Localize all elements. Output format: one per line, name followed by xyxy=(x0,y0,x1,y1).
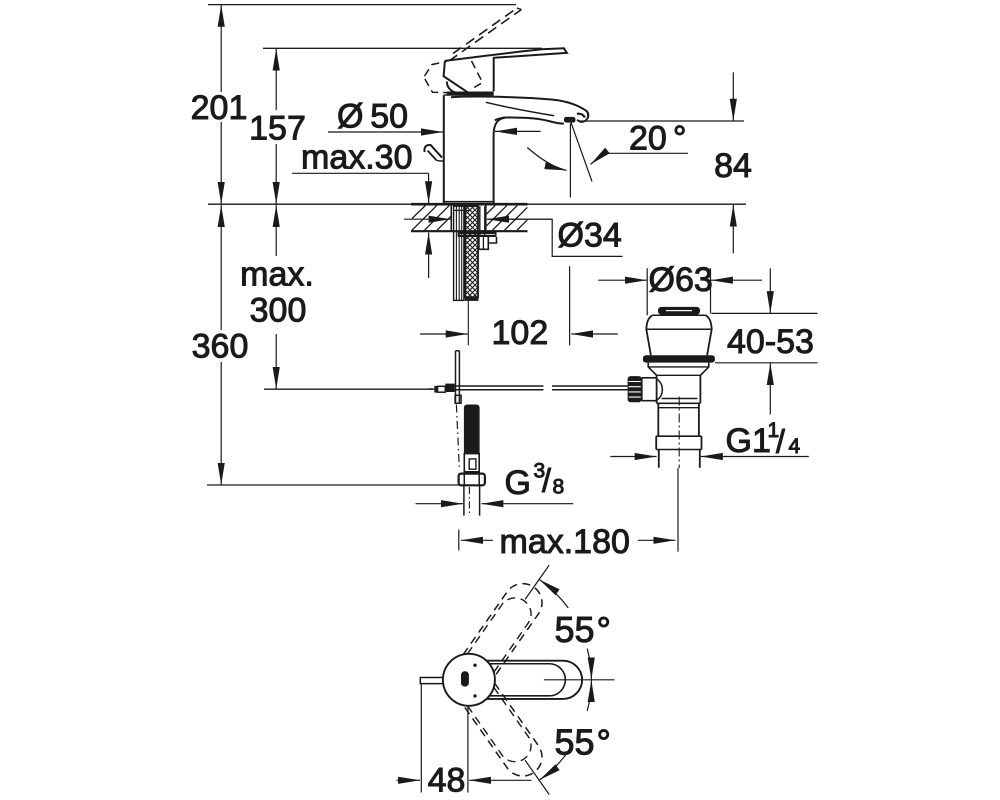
pop-up waste: valve body xyxy=(657,375,701,403)
55 degree arc upper with arrows xyxy=(540,580,569,608)
svg-text:max.: max. xyxy=(240,256,314,294)
pop-up waste: upper flange xyxy=(646,315,652,355)
top view: pop-up rod stub xyxy=(420,678,443,684)
dimension 40-53 stem and arrows xyxy=(769,268,771,313)
55 degree arc lower with arrows xyxy=(540,752,569,780)
svg-text:8: 8 xyxy=(553,476,565,499)
svg-text:48: 48 xyxy=(428,762,466,800)
top view: dashed lever rotated up 55 xyxy=(463,576,549,676)
top view: indicator dots xyxy=(473,664,476,667)
dimension 102 right extension line xyxy=(569,266,571,345)
top view: horizontal axis line xyxy=(544,679,615,681)
dimension 84 stem and arrows xyxy=(732,72,734,120)
faucet body right edge xyxy=(494,118,506,204)
55 degree extension line upper xyxy=(525,565,549,599)
knurled adjuster knob xyxy=(628,376,642,402)
pop-up rod bottom end xyxy=(455,395,461,403)
dimension 40-53 extension lines xyxy=(712,313,818,362)
countertop hatching right xyxy=(487,205,528,230)
dimension 102 arrows xyxy=(420,333,468,335)
second connection tube xyxy=(480,206,485,236)
braided supply hose upper (cross-hatched) xyxy=(465,206,478,297)
reference line lever height 157 xyxy=(263,47,542,49)
svg-text:4: 4 xyxy=(789,435,801,458)
svg-text:201: 201 xyxy=(191,89,248,127)
faucet centerline extension xyxy=(467,301,469,345)
handle neck arc xyxy=(447,82,459,93)
dimension 48 arrows xyxy=(397,779,421,781)
supply hose lower (black) xyxy=(464,405,480,454)
top view: lever inner outline xyxy=(489,664,565,696)
top view: dashed lever rotated down 55 xyxy=(463,683,549,783)
spout underside xyxy=(495,117,564,123)
spout tip lip xyxy=(577,114,585,118)
svg-text:20°: 20° xyxy=(629,120,686,158)
pop-up waste: below gasket xyxy=(648,363,709,376)
countertop top surface line xyxy=(208,203,746,205)
G3/8 connection pipe xyxy=(464,485,480,515)
svg-text:102: 102 xyxy=(492,314,549,352)
svg-text:max.180: max.180 xyxy=(500,523,630,561)
countertop bottom line xyxy=(411,230,528,232)
svg-text:84: 84 xyxy=(714,147,752,185)
svg-text:Ø 50: Ø 50 xyxy=(337,98,408,136)
pop-up rod axis dash-dot centerline xyxy=(456,405,459,471)
spout top edge xyxy=(451,97,588,118)
svg-text:360: 360 xyxy=(192,328,249,366)
spout crease line xyxy=(486,102,554,115)
pop-up pull knob on body xyxy=(424,145,442,158)
dimension Ø50 left arrow xyxy=(328,131,443,133)
55 degree extension line lower xyxy=(525,760,549,794)
pop-up waste: outlet pipe G1 1/4 xyxy=(659,450,700,468)
threaded mounting stud xyxy=(454,206,464,300)
dimension Ø63 extension lines xyxy=(647,268,710,315)
aerator xyxy=(564,117,576,123)
faucet cartridge joint band xyxy=(447,92,494,96)
top view: indicator blob xyxy=(461,671,469,686)
svg-text:G1: G1 xyxy=(726,422,771,460)
dimension max.30 arrows xyxy=(428,173,430,203)
dashed handle body (raised position) xyxy=(425,61,483,93)
20 degree sweep arc arrow xyxy=(527,148,566,171)
dimension max.30 leader line xyxy=(292,172,429,174)
svg-text:/: / xyxy=(776,424,785,460)
faucet body left edge xyxy=(443,95,445,203)
dimension Ø50 right arrow xyxy=(495,130,541,132)
knob connector housing xyxy=(642,378,657,401)
pop-up horizontal rod xyxy=(446,386,544,390)
svg-text:40-53: 40-53 xyxy=(727,323,814,361)
dimension Ø63 arrows xyxy=(598,279,647,281)
spout tip front face xyxy=(577,111,588,122)
20 degree slant line xyxy=(571,123,592,182)
rod left end cap xyxy=(438,386,446,392)
dimension 157 stem and arrows xyxy=(275,49,277,111)
reference line pop-up rod level (max.300) xyxy=(264,388,434,390)
svg-text:300: 300 xyxy=(250,292,307,330)
svg-text:Ø63: Ø63 xyxy=(649,261,713,299)
svg-text:55°: 55° xyxy=(555,609,611,650)
hose end collar xyxy=(465,297,479,301)
dimension Ø34 right arrow with leader bracket xyxy=(487,219,623,256)
mounting hole left edge xyxy=(450,205,452,230)
pop-up waste: union nut xyxy=(656,436,701,449)
mounting hole right edge xyxy=(485,205,487,230)
spout height reference line xyxy=(578,120,744,122)
dimension 360 stem and arrows xyxy=(220,205,222,330)
rod clamp block xyxy=(445,384,454,392)
dimension G3/8 arrows xyxy=(416,503,464,505)
pop-up rod vertical xyxy=(456,351,460,404)
outlet stub fitting xyxy=(479,237,488,249)
svg-text:G: G xyxy=(505,464,531,502)
pop-up waste: rubber gasket ring xyxy=(643,355,715,362)
top view: lever outer outline xyxy=(486,661,582,699)
G3/8 hex nut xyxy=(459,474,485,486)
dimension 201 stem and arrows xyxy=(220,5,222,92)
lever handle (solid, lowered) xyxy=(445,48,567,91)
dimension max.180 xyxy=(458,530,460,551)
spout outlet vertical extension line xyxy=(569,124,571,198)
reference line bottom of hose (360) xyxy=(207,484,461,486)
svg-text:Ø34: Ø34 xyxy=(558,217,622,255)
top reference line (overall height) xyxy=(208,4,516,6)
faucet base line xyxy=(444,201,494,203)
dimension max.300 stem and arrows xyxy=(275,205,277,256)
pop-up waste: plug cap disc xyxy=(658,307,700,315)
mounting locknut below counter xyxy=(458,232,496,234)
dimension G1 1/4 arrows xyxy=(610,456,656,458)
top view: handle knob circle xyxy=(443,654,495,706)
dimension Ø34 left arrow xyxy=(404,218,451,220)
hose to pipe fitting xyxy=(464,454,479,472)
svg-text:max.30: max.30 xyxy=(301,139,413,177)
svg-text:55°: 55° xyxy=(555,722,611,763)
max.180 extension line (pipe axis) xyxy=(677,468,679,552)
svg-text:157: 157 xyxy=(249,110,306,148)
pop-up waste: lower body xyxy=(658,403,699,436)
dimension 48 extension lines xyxy=(421,684,468,793)
pipe centerline xyxy=(468,487,470,514)
svg-text:/: / xyxy=(542,463,551,499)
countertop hatching left xyxy=(412,205,451,230)
dimension 20 degree leader and arrow xyxy=(591,153,689,164)
valve centerline xyxy=(678,397,680,469)
dashed lever (raised position) xyxy=(449,8,521,61)
